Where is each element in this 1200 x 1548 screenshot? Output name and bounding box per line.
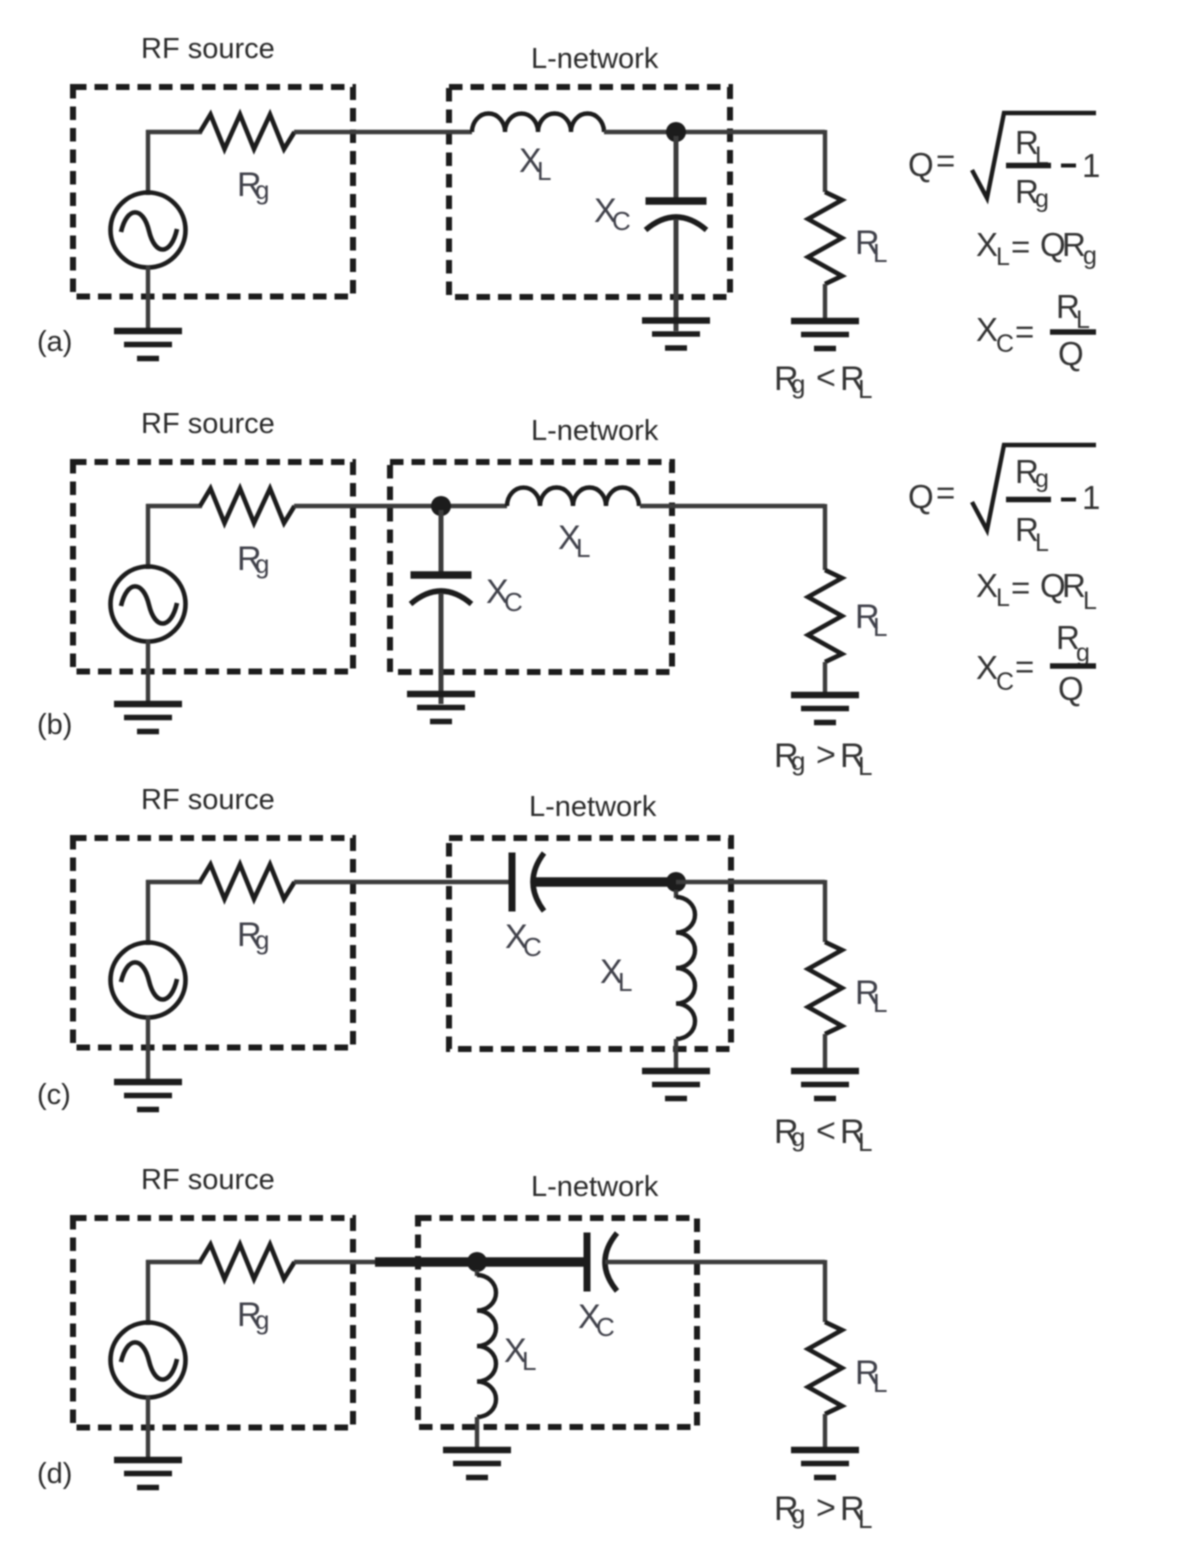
AC source generator (b) [111, 567, 186, 642]
label Rg &lt; RL (a) [774, 359, 872, 404]
formula XL = QRL [976, 567, 1097, 615]
wire down to RL (b) [823, 504, 827, 570]
wire source vertical (a) [146, 130, 150, 195]
svg-text:L: L [873, 1368, 887, 1398]
wire source to ground (b) [146, 640, 150, 704]
svg-text:=: = [936, 142, 955, 179]
AC source generator (c) [111, 943, 186, 1018]
svg-text:X: X [976, 649, 998, 686]
svg-text:L: L [618, 967, 632, 997]
svg-text:<: < [816, 1112, 836, 1150]
svg-text:g: g [791, 746, 805, 776]
svg-text:>: > [816, 1489, 836, 1527]
svg-text:L: L [858, 1504, 872, 1534]
formula XC = Rg/Q [976, 619, 1090, 707]
wire RL to ground (a) [823, 284, 827, 321]
svg-text:Q: Q [1058, 670, 1084, 707]
label RL (c) [855, 974, 887, 1018]
label Rg (b) [237, 540, 269, 579]
svg-text:RF source: RF source [141, 408, 275, 440]
label Rg &gt; RL (b) [774, 736, 872, 781]
svg-text:L-network: L-network [529, 791, 657, 823]
wire XC to RL (d) [605, 1260, 825, 1264]
svg-text:L: L [1083, 587, 1097, 615]
svg-text:L: L [858, 751, 872, 781]
AC source generator (a) [111, 193, 186, 268]
capacitor XC (d) [587, 1233, 617, 1292]
AC source generator (d) [111, 1323, 186, 1398]
ground under XC (b) [407, 694, 475, 722]
label XL (b) [558, 519, 590, 563]
label XL (c) [600, 953, 632, 997]
wire XC to ground (b) [439, 593, 444, 704]
ground under RL (d) [791, 1450, 859, 1478]
capacitor XC (c) [512, 853, 544, 912]
svg-text:Q: Q [908, 146, 934, 183]
dashed box RF source (a) [73, 87, 353, 297]
label RL (a) [855, 224, 887, 268]
wire XC to ground (a) [674, 219, 679, 331]
inductor XL (c) [676, 897, 695, 1039]
inductor XL (b) [507, 488, 639, 506]
wire source vertical (c) [146, 880, 150, 945]
svg-text:L: L [873, 612, 887, 642]
wire source to ground (c) [146, 1016, 150, 1082]
svg-text:g: g [1076, 639, 1090, 667]
ground under RL (a) [791, 321, 859, 349]
wire source vertical (d) [146, 1260, 150, 1325]
label RL (b) [855, 598, 887, 642]
dashed box L-network (b) [390, 462, 672, 672]
wire RL to ground (c) [823, 1034, 827, 1071]
svg-text:1: 1 [1082, 147, 1100, 184]
svg-text:X: X [976, 311, 998, 348]
resistor Rg (a) [200, 115, 295, 150]
formula Q = sqrt(Rg/RL - 1) [908, 453, 1100, 557]
wire RL to ground (b) [823, 662, 827, 695]
svg-text:RF source: RF source [141, 1164, 275, 1196]
svg-text:RF source: RF source [141, 33, 275, 65]
ground under RL (b) [791, 695, 859, 723]
svg-text:L: L [858, 374, 872, 404]
wire XL to ground (c) [674, 1039, 678, 1071]
dashed box RF source (b) [73, 462, 353, 672]
svg-text:=: = [936, 474, 955, 511]
svg-text:(a): (a) [37, 326, 72, 358]
capacitor XC (a) [646, 201, 707, 230]
label Rg (c) [237, 916, 269, 955]
svg-text:(b): (b) [37, 709, 72, 741]
wire junction to XC (a) [674, 136, 679, 199]
svg-text:L: L [522, 1346, 536, 1376]
svg-text:<: < [816, 359, 836, 397]
wire Rg to junction (b) [294, 504, 507, 508]
svg-text:g: g [255, 925, 269, 955]
resistor RL (b) [808, 570, 842, 662]
svg-text:>: > [816, 736, 836, 774]
svg-text:C: C [523, 932, 542, 962]
svg-text:L: L [873, 988, 887, 1018]
wire source to ground (d) [146, 1396, 150, 1460]
label XC (c) [505, 918, 542, 962]
wire junction to RL (c) [676, 880, 825, 884]
dashed box RF source (c) [73, 838, 353, 1048]
resistor RL (d) [808, 1322, 842, 1414]
svg-text:Q: Q [908, 478, 934, 515]
resistor Rg (b) [200, 489, 295, 524]
wire down to RL (c) [823, 880, 827, 942]
label XC (d) [578, 1298, 615, 1342]
dashed box RF source (d) [73, 1218, 353, 1428]
svg-text:(d): (d) [37, 1458, 72, 1490]
svg-text:L: L [996, 243, 1010, 271]
svg-text:Q: Q [1058, 335, 1084, 372]
svg-text:L: L [1035, 529, 1049, 557]
formula XL = QRg [976, 226, 1097, 271]
label Rg (d) [237, 1296, 269, 1335]
junction node (b) [431, 496, 451, 516]
dashed box L-network (d) [418, 1218, 697, 1427]
ground under source (c) [114, 1082, 182, 1110]
svg-text:(c): (c) [37, 1079, 71, 1111]
svg-text:=: = [1015, 648, 1034, 685]
label XC (b) [486, 573, 523, 617]
wire junction to XL (d) [475, 1270, 479, 1276]
ground under XL (d) [443, 1450, 511, 1478]
label Rg &lt; RL (c) [774, 1112, 872, 1157]
label XC (a) [594, 192, 631, 236]
svg-text:L-network: L-network [531, 43, 659, 75]
svg-text:g: g [1083, 242, 1097, 270]
svg-text:1: 1 [1082, 479, 1100, 516]
wire source to Rg (a) [146, 130, 202, 134]
wire source to Rg (d) [146, 1260, 202, 1264]
svg-text:=: = [1015, 313, 1034, 350]
inductor XL (d) [477, 1275, 496, 1417]
ground under source (d) [114, 1460, 182, 1488]
resistor Rg (d) [200, 1245, 295, 1280]
ground under source (b) [114, 704, 182, 732]
formula Q = sqrt(RL/Rg - 1) [908, 124, 1100, 213]
wire Rg to XC (c) [294, 880, 512, 884]
svg-text:X: X [976, 567, 998, 604]
thick wire junction to XC (d) [375, 1257, 587, 1267]
junction node (c) [666, 872, 686, 892]
svg-text:L: L [537, 156, 551, 186]
svg-text:C: C [504, 587, 523, 617]
svg-text:g: g [1035, 185, 1049, 213]
wire Rg to XL (a) [294, 130, 472, 134]
resistor Rg (c) [200, 865, 295, 900]
svg-text:g: g [1035, 465, 1049, 493]
formula XC = RL/Q [976, 288, 1090, 372]
resistor RL (c) [808, 942, 842, 1034]
svg-text:L-network: L-network [531, 415, 659, 447]
wire junction to XC (b) [439, 510, 444, 573]
capacitor XC (b) [411, 575, 472, 604]
svg-text:L: L [996, 584, 1010, 612]
ground under XC (a) [642, 321, 710, 349]
label RL (d) [855, 1354, 887, 1398]
svg-text:=: = [1011, 569, 1030, 606]
label Rg &gt; RL (d) [774, 1489, 872, 1534]
svg-text:L: L [858, 1127, 872, 1157]
wire Rg to L-network (d) [294, 1260, 377, 1264]
resistor RL (a) [808, 192, 842, 284]
svg-text:L-network: L-network [531, 1171, 659, 1203]
dashed box L-network (c) [449, 838, 731, 1049]
svg-text:g: g [791, 369, 805, 399]
wire down to RL (a) [823, 130, 827, 192]
ground under source (a) [114, 331, 182, 359]
wire source to Rg (c) [146, 880, 202, 884]
wire source to ground (a) [146, 266, 150, 331]
wire RL to ground (d) [823, 1414, 827, 1450]
wire XL to RL (b) [640, 504, 825, 508]
inductor XL (a) [472, 114, 604, 133]
svg-text:RF source: RF source [141, 784, 275, 816]
wire junction to XL (c) [674, 890, 678, 898]
svg-text:L: L [576, 533, 590, 563]
wire source to Rg (b) [146, 504, 202, 508]
svg-text:C: C [596, 1312, 615, 1342]
svg-text:C: C [996, 668, 1014, 696]
junction node (d) [467, 1252, 487, 1272]
svg-text:g: g [255, 1305, 269, 1335]
wire XL to RL (a) [604, 130, 825, 134]
svg-text:g: g [791, 1499, 805, 1529]
svg-text:=: = [1011, 228, 1030, 265]
svg-text:g: g [791, 1122, 805, 1152]
svg-text:L: L [873, 238, 887, 268]
wire XL to ground (d) [475, 1417, 479, 1450]
ground under RL (c) [791, 1071, 859, 1099]
label Rg (a) [237, 166, 269, 205]
svg-text:X: X [976, 226, 998, 263]
svg-text:C: C [996, 330, 1014, 358]
svg-text:g: g [255, 549, 269, 579]
label XL (a) [519, 142, 551, 186]
svg-text:C: C [612, 206, 631, 236]
label XL (d) [504, 1332, 536, 1376]
thick wire XC to junction (c) [535, 877, 676, 887]
wire down to RL (d) [823, 1260, 827, 1322]
svg-text:g: g [255, 175, 269, 205]
junction node (a) [666, 122, 686, 142]
dashed box L-network (a) [449, 87, 730, 297]
wire source vertical (b) [146, 504, 150, 569]
ground under XL (c) [642, 1071, 710, 1099]
